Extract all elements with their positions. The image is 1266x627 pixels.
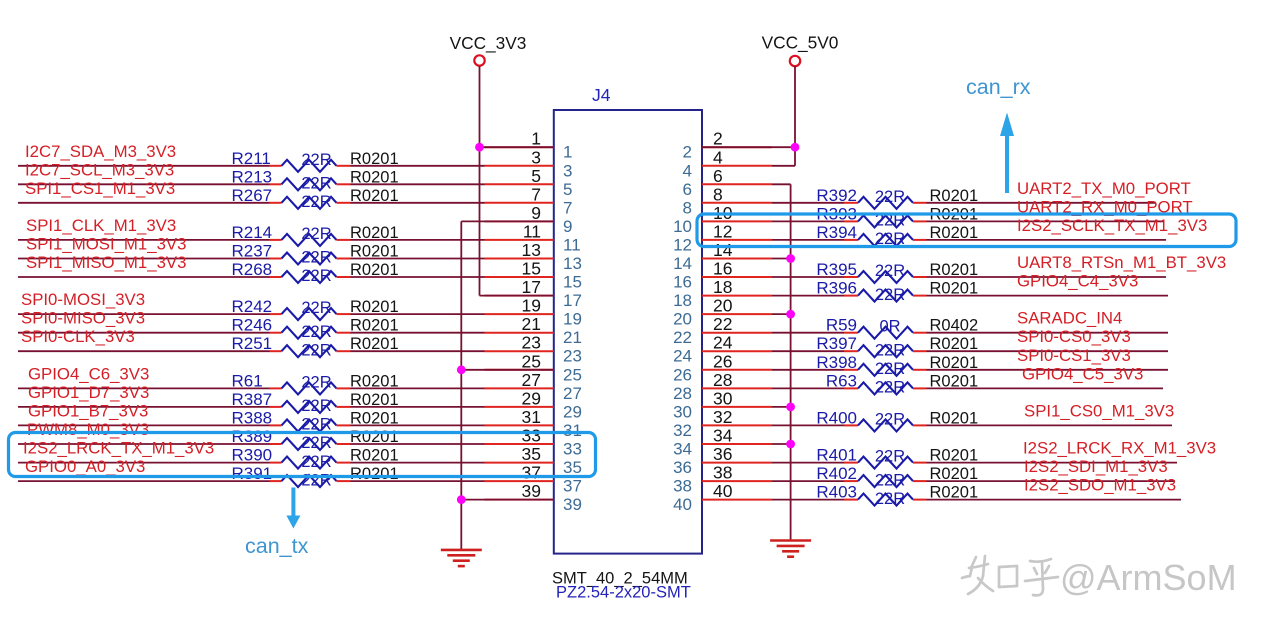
svg-text:R398: R398 [816, 353, 857, 372]
svg-text:33: 33 [563, 440, 582, 459]
pin 33 [485, 426, 582, 459]
svg-text:19: 19 [522, 296, 541, 316]
svg-text:8: 8 [683, 198, 692, 217]
resistor R246 [232, 316, 399, 341]
resistor R394 [816, 223, 978, 248]
resistor R403 [816, 483, 978, 508]
svg-text:13: 13 [563, 254, 582, 273]
svg-text:22R: 22R [301, 471, 331, 489]
svg-text:22R: 22R [301, 373, 331, 391]
svg-text:PZ2.54-2x20-SMT: PZ2.54-2x20-SMT [556, 584, 691, 602]
svg-text:I2S2_LRCK_TX_M1_3V3: I2S2_LRCK_TX_M1_3V3 [23, 439, 214, 458]
svg-text:22R: 22R [875, 490, 905, 508]
svg-text:15: 15 [563, 273, 582, 292]
svg-text:34: 34 [673, 440, 692, 459]
svg-text:5: 5 [563, 180, 572, 199]
wire [772, 183, 791, 185]
svg-text:1: 1 [531, 129, 541, 149]
svg-text:32: 32 [713, 407, 732, 427]
pin 40 [673, 481, 772, 514]
svg-text:16: 16 [673, 273, 692, 292]
junction [475, 143, 484, 152]
resistor R251 [232, 334, 399, 359]
svg-text:22R: 22R [301, 299, 331, 317]
resistor R402 [816, 464, 978, 489]
resistor R388 [232, 408, 399, 433]
svg-text:31: 31 [522, 407, 541, 427]
svg-text:27: 27 [563, 384, 582, 403]
resistor R392 [816, 186, 978, 209]
pin 24 [673, 333, 772, 366]
pin 9 [485, 203, 573, 236]
svg-text:26: 26 [713, 351, 732, 371]
svg-text:22R: 22R [875, 471, 905, 489]
resistor R387 [232, 390, 399, 415]
svg-text:26: 26 [673, 365, 692, 384]
svg-text:20: 20 [713, 296, 733, 316]
svg-text:GPIO4_C4_3V3: GPIO4_C4_3V3 [1017, 272, 1138, 291]
wire [702, 146, 795, 148]
resistor R397 [816, 334, 978, 359]
pin 39 [485, 481, 582, 514]
svg-text:6: 6 [713, 166, 723, 186]
wire [18, 258, 270, 260]
svg-text:21: 21 [522, 314, 541, 334]
wire [18, 276, 270, 278]
pin 36 [673, 444, 772, 477]
wire [351, 406, 485, 408]
pin 34 [673, 426, 772, 459]
svg-text:22R: 22R [875, 360, 905, 378]
wire [461, 369, 554, 371]
wire [351, 165, 485, 167]
svg-text:SPI0-CLK_3V3: SPI0-CLK_3V3 [21, 327, 135, 346]
resistor R398 [816, 353, 978, 378]
wire [927, 332, 1169, 334]
highlight box right [697, 214, 1236, 247]
pin 10 [673, 203, 772, 236]
svg-text:22R: 22R [875, 448, 905, 466]
svg-text:R267: R267 [232, 186, 273, 205]
svg-text:I2S2_SDI_M1_3V3: I2S2_SDI_M1_3V3 [1024, 457, 1168, 476]
svg-text:R213: R213 [232, 167, 273, 186]
wire [772, 202, 844, 204]
svg-text:R390: R390 [232, 446, 273, 465]
junction [786, 254, 795, 263]
wire [772, 276, 844, 278]
wire [351, 258, 485, 260]
pin 35 [485, 444, 582, 477]
resistor R390 [232, 446, 399, 471]
wire [772, 406, 791, 408]
svg-text:5: 5 [531, 166, 541, 186]
svg-text:SARADC_IN4: SARADC_IN4 [1017, 309, 1122, 328]
pin 7 [485, 184, 573, 217]
svg-text:11: 11 [523, 221, 541, 241]
svg-text:37: 37 [563, 477, 582, 496]
svg-text:19: 19 [563, 310, 582, 329]
wire [772, 295, 844, 297]
wire VCC_5V0 vertical [794, 66, 796, 166]
wire [927, 276, 1167, 278]
wire [480, 295, 554, 297]
wire [927, 480, 1176, 482]
svg-text:R402: R402 [816, 464, 857, 483]
pin 18 [673, 277, 772, 310]
wire [18, 165, 270, 167]
svg-text:9: 9 [531, 203, 541, 223]
resistor R61 [232, 371, 399, 394]
svg-text:R395: R395 [816, 260, 857, 279]
svg-text:UART2_TX_M0_PORT: UART2_TX_M0_PORT [1017, 179, 1191, 198]
svg-text:22R: 22R [875, 341, 905, 359]
svg-text:VCC_5V0: VCC_5V0 [762, 33, 839, 53]
pin 12 [673, 221, 772, 254]
svg-text:14: 14 [673, 254, 692, 273]
svg-text:22: 22 [713, 314, 732, 334]
svg-text:24: 24 [673, 347, 692, 366]
svg-text:17: 17 [563, 291, 582, 310]
svg-text:GPIO1_D7_3V3: GPIO1_D7_3V3 [28, 383, 149, 402]
svg-text:I2C7_SCL_M3_3V3: I2C7_SCL_M3_3V3 [25, 160, 174, 179]
wire [18, 202, 270, 204]
svg-text:24: 24 [713, 333, 733, 353]
svg-text:R389: R389 [232, 427, 273, 446]
svg-text:can_rx: can_rx [966, 75, 1031, 99]
svg-text:22R: 22R [301, 341, 331, 359]
junction [786, 310, 795, 319]
wire [18, 387, 270, 389]
svg-text:4: 4 [713, 147, 723, 167]
pin 2 [683, 129, 772, 162]
pin 26 [673, 351, 772, 384]
svg-text:R268: R268 [232, 260, 273, 279]
svg-text:R403: R403 [816, 483, 857, 502]
svg-text:R63: R63 [826, 371, 857, 390]
svg-text:SPI0-MISO_3V3: SPI0-MISO_3V3 [21, 309, 145, 328]
svg-text:22R: 22R [875, 262, 905, 280]
resistor R396 [816, 279, 978, 304]
wire [772, 369, 844, 371]
svg-text:22R: 22R [875, 379, 905, 397]
pin 13 [485, 240, 582, 273]
svg-text:31: 31 [563, 421, 582, 440]
wire [927, 202, 1157, 204]
wire [927, 350, 1169, 352]
svg-text:7: 7 [563, 198, 572, 217]
svg-text:3: 3 [531, 147, 541, 167]
svg-text:22R: 22R [301, 267, 331, 285]
svg-text:GPIO4_C5_3V3: GPIO4_C5_3V3 [1022, 364, 1143, 383]
svg-text:38: 38 [673, 477, 692, 496]
svg-text:40: 40 [713, 481, 733, 501]
wire [480, 146, 554, 148]
svg-text:2: 2 [683, 143, 692, 162]
svg-text:32: 32 [673, 421, 692, 440]
highlight box left [9, 433, 596, 477]
wire [18, 480, 270, 482]
wire [927, 424, 1173, 426]
pin 21 [485, 314, 582, 347]
wire [772, 332, 844, 334]
svg-text:6: 6 [683, 180, 692, 199]
svg-text:R394: R394 [816, 223, 857, 242]
svg-text:22R: 22R [301, 151, 331, 169]
watermark [962, 556, 1058, 595]
resistor R395 [816, 260, 978, 283]
svg-text:25: 25 [522, 351, 541, 371]
svg-text:R396: R396 [816, 279, 857, 298]
wire [351, 424, 485, 426]
svg-text:22: 22 [673, 328, 692, 347]
wire [772, 387, 844, 389]
svg-text:7: 7 [531, 184, 541, 204]
ground [770, 541, 811, 557]
svg-text:22R: 22R [875, 286, 905, 304]
wire [18, 183, 270, 185]
svg-text:37: 37 [522, 463, 541, 483]
svg-text:12: 12 [673, 235, 692, 254]
wire [927, 220, 1164, 222]
resistor R214 [232, 223, 399, 246]
wire [461, 220, 554, 222]
svg-text:0R: 0R [879, 318, 900, 336]
svg-text:R214: R214 [232, 223, 273, 242]
svg-text:R401: R401 [816, 446, 857, 465]
pin 14 [673, 240, 772, 273]
wire [772, 443, 791, 445]
pin 6 [683, 166, 772, 199]
svg-text:R61: R61 [232, 371, 263, 390]
svg-text:40: 40 [673, 495, 692, 514]
wire [772, 424, 844, 426]
svg-text:2: 2 [713, 129, 723, 149]
wire [772, 480, 844, 482]
pin 28 [673, 370, 772, 403]
svg-text:22R: 22R [301, 175, 331, 193]
svg-text:SPI1_MOSI_M1_3V3: SPI1_MOSI_M1_3V3 [26, 235, 186, 254]
svg-text:35: 35 [522, 444, 541, 464]
svg-text:14: 14 [713, 240, 733, 260]
pin 8 [683, 184, 772, 217]
junction [457, 365, 466, 374]
wire [351, 443, 485, 445]
wire left GND vertical [460, 221, 462, 549]
pin 25 [485, 351, 582, 384]
svg-text:38: 38 [713, 463, 732, 483]
pin 17 [485, 277, 582, 310]
pin 1 [485, 129, 573, 162]
wire [351, 462, 485, 464]
svg-text:20: 20 [673, 310, 692, 329]
svg-text:27: 27 [522, 370, 541, 390]
junction [457, 495, 466, 504]
svg-text:R237: R237 [232, 242, 273, 261]
wire [351, 350, 485, 352]
pin 37 [485, 463, 582, 496]
wire [351, 276, 485, 278]
svg-text:36: 36 [713, 444, 732, 464]
svg-text:I2S2_SCLK_TX_M1_3V3: I2S2_SCLK_TX_M1_3V3 [1017, 216, 1207, 235]
wire [772, 350, 844, 352]
wire [927, 499, 1182, 501]
svg-text:SPI1_CLK_M1_3V3: SPI1_CLK_M1_3V3 [26, 216, 176, 235]
svg-text:@ArmSoM: @ArmSoM [1060, 557, 1237, 598]
svg-text:22R: 22R [301, 453, 331, 471]
svg-text:SPI0-CS1_3V3: SPI0-CS1_3V3 [1017, 346, 1131, 365]
wire [351, 202, 485, 204]
wire [461, 499, 554, 501]
wire VCC_3V3 vertical [479, 66, 481, 296]
wire [351, 332, 485, 334]
resistor R242 [232, 297, 399, 320]
svg-text:SPI0-CS0_3V3: SPI0-CS0_3V3 [1017, 327, 1131, 346]
wire [927, 369, 1169, 371]
svg-text:GPIO4_C6_3V3: GPIO4_C6_3V3 [28, 364, 149, 383]
wire [927, 462, 1178, 464]
svg-text:I2S2_LRCK_RX_M1_3V3: I2S2_LRCK_RX_M1_3V3 [1023, 439, 1216, 458]
pin 22 [673, 314, 772, 347]
wire [18, 443, 270, 445]
svg-text:33: 33 [522, 426, 541, 446]
wire [927, 387, 1164, 389]
wire [351, 313, 485, 315]
wire [927, 295, 1169, 297]
wire [351, 480, 485, 482]
pin 4 [683, 147, 772, 180]
pin 16 [673, 259, 772, 292]
svg-text:36: 36 [673, 458, 692, 477]
svg-text:28: 28 [713, 370, 732, 390]
svg-text:SPI1_CS0_M1_3V3: SPI1_CS0_M1_3V3 [1024, 401, 1174, 420]
resistor R213 [232, 167, 399, 192]
svg-text:22R: 22R [301, 249, 331, 267]
pin 5 [485, 166, 573, 199]
resistor R267 [232, 186, 399, 211]
wire [351, 239, 485, 241]
svg-text:18: 18 [713, 277, 732, 297]
svg-text:R242: R242 [232, 297, 273, 316]
wire [772, 499, 844, 501]
svg-text:22R: 22R [301, 323, 331, 341]
svg-text:VCC_3V3: VCC_3V3 [450, 33, 527, 53]
svg-text:R397: R397 [816, 334, 857, 353]
svg-text:39: 39 [563, 495, 582, 514]
wire right GND vertical [790, 184, 792, 540]
svg-text:GPIO1_B7_3V3: GPIO1_B7_3V3 [28, 401, 148, 420]
annotation arrow can_rx [966, 75, 1031, 193]
resistor R389 [232, 427, 399, 452]
svg-text:22R: 22R [301, 225, 331, 243]
pin 23 [485, 333, 582, 366]
pin 38 [673, 463, 772, 496]
resistor R59 [826, 316, 978, 339]
wire [18, 313, 270, 315]
svg-text:35: 35 [563, 458, 582, 477]
pin 29 [485, 388, 582, 421]
resistor R393 [816, 204, 978, 229]
pin 32 [673, 407, 772, 440]
power symbol VCC_3V3 [450, 33, 527, 66]
resistor R268 [232, 260, 399, 285]
svg-text:12: 12 [713, 221, 732, 241]
svg-text:30: 30 [713, 388, 733, 408]
svg-text:8: 8 [713, 184, 723, 204]
svg-text:22R: 22R [301, 397, 331, 415]
wire [927, 239, 1167, 241]
resistor R211 [232, 149, 399, 172]
svg-text:22R: 22R [875, 188, 905, 206]
pin 3 [485, 147, 573, 180]
svg-text:R388: R388 [232, 408, 273, 427]
svg-text:29: 29 [563, 402, 582, 421]
pin 27 [485, 370, 582, 403]
svg-text:R400: R400 [816, 408, 857, 427]
svg-text:I2S2_SDO_M1_3V3: I2S2_SDO_M1_3V3 [1024, 476, 1176, 495]
svg-text:17: 17 [522, 277, 541, 297]
svg-text:16: 16 [713, 259, 732, 279]
svg-text:13: 13 [522, 240, 541, 260]
pin 31 [485, 407, 582, 440]
svg-text:22R: 22R [301, 193, 331, 211]
resistor R400 [816, 408, 978, 431]
wire [18, 239, 270, 241]
svg-text:R387: R387 [232, 390, 273, 409]
svg-text:R392: R392 [816, 186, 857, 205]
svg-text:11: 11 [563, 235, 581, 254]
svg-text:28: 28 [673, 384, 692, 403]
wire [351, 183, 485, 185]
wire [772, 313, 791, 315]
svg-text:15: 15 [522, 259, 541, 279]
resistor R237 [232, 242, 399, 267]
junction [786, 403, 795, 412]
svg-text:4: 4 [683, 161, 692, 180]
svg-text:30: 30 [673, 402, 692, 421]
resistor R401 [816, 446, 978, 469]
svg-text:I2C7_SDA_M3_3V3: I2C7_SDA_M3_3V3 [25, 142, 176, 161]
junction [786, 440, 795, 449]
svg-text:R211: R211 [232, 149, 271, 168]
svg-text:10: 10 [673, 217, 692, 236]
svg-text:21: 21 [563, 328, 582, 347]
svg-text:34: 34 [713, 426, 733, 446]
annotation arrow can_tx [245, 488, 309, 559]
svg-text:SPI1_CS1_M1_3V3: SPI1_CS1_M1_3V3 [25, 179, 175, 198]
svg-text:GPIO0_A0_3V3: GPIO0_A0_3V3 [25, 457, 145, 476]
wire [351, 387, 485, 389]
wire [772, 220, 844, 222]
svg-text:PWM8_M0_3V3: PWM8_M0_3V3 [27, 420, 149, 439]
svg-text:R391: R391 [232, 464, 273, 483]
pin 15 [485, 259, 582, 292]
pin 19 [485, 296, 582, 329]
svg-text:J4: J4 [592, 85, 611, 105]
resistor R391 [232, 464, 399, 489]
wire [772, 239, 844, 241]
svg-text:R251: R251 [232, 334, 273, 353]
wire [18, 424, 270, 426]
wire [18, 462, 270, 464]
pin 11 [485, 221, 581, 254]
resistor R63 [826, 371, 978, 396]
svg-text:R246: R246 [232, 316, 273, 335]
connector J4 [554, 85, 702, 554]
svg-text:SPI0-MOSI_3V3: SPI0-MOSI_3V3 [21, 290, 145, 309]
svg-text:9: 9 [563, 217, 572, 236]
svg-text:25: 25 [563, 365, 582, 384]
wire [772, 165, 795, 167]
